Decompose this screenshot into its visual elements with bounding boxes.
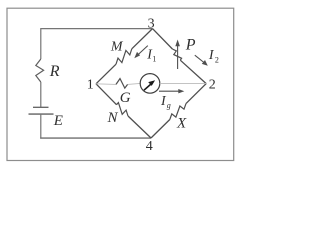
wire arm node1 to M [96, 64, 116, 84]
wire: top rail from node3 to left branch [41, 29, 153, 59]
wire: G to galvanometer [128, 83, 141, 84]
current arrow I2 [195, 55, 205, 63]
svg-text:g: g [167, 101, 171, 110]
resistor M [116, 49, 132, 64]
svg-text:P: P [185, 37, 196, 54]
resistor X [170, 104, 186, 120]
svg-text:1: 1 [87, 78, 94, 93]
border frame [7, 8, 234, 160]
svg-text:2: 2 [209, 78, 216, 93]
current arrow Ig [159, 90, 181, 92]
resistor R [36, 59, 44, 82]
svg-text:1: 1 [152, 54, 156, 63]
svg-text:2: 2 [215, 55, 219, 64]
wire arm N to node4 [128, 116, 151, 138]
wire: node1 to G [96, 83, 116, 86]
svg-text:3: 3 [148, 16, 155, 31]
wire: R to battery [40, 82, 42, 107]
wire arm node3 to P [153, 29, 173, 49]
wire: battery to bottom-left corner [40, 114, 42, 139]
current arrow I1 [137, 46, 148, 56]
galvanometer needle [144, 84, 151, 90]
wire arm node1 to N [96, 84, 117, 105]
svg-text:M: M [110, 40, 124, 55]
galvanometer circle [140, 74, 160, 94]
resistor G (galvanometer resistance) [116, 79, 128, 89]
resistor P [172, 49, 181, 60]
svg-text:E: E [53, 113, 63, 129]
svg-text:N: N [107, 110, 119, 126]
wire: bottom rail to node4 [40, 137, 151, 139]
wire arm X to node2 [186, 84, 206, 104]
resistor N [117, 103, 129, 116]
wire: galvanometer to node2 [160, 82, 206, 84]
wire arm node4 to X [151, 120, 170, 139]
svg-text:X: X [176, 115, 187, 131]
svg-text:G: G [120, 90, 131, 106]
variable arrow through P [177, 45, 179, 69]
wire arm P to node2 [180, 60, 206, 83]
svg-text:4: 4 [146, 139, 153, 154]
wire arm M to node3 [132, 29, 153, 49]
battery E long plate [29, 113, 54, 115]
svg-text:R: R [49, 63, 60, 80]
battery E short plate [33, 106, 49, 108]
